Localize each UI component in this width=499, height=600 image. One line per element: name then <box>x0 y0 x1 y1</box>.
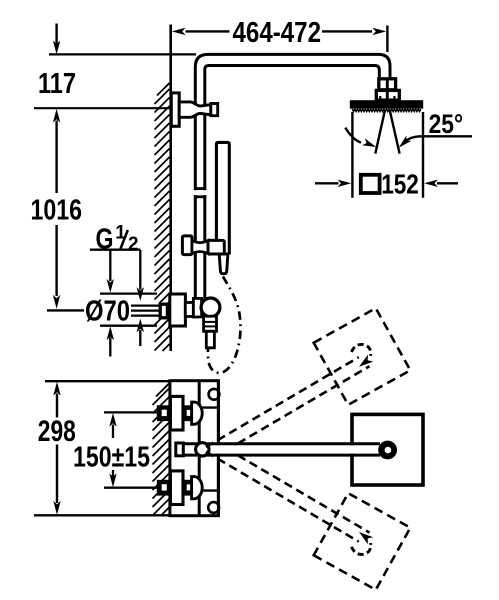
svg-text:298: 298 <box>38 415 76 448</box>
upper handle handle, plan <box>192 402 203 424</box>
extension line y=108 for dim 117 / 1016 <box>34 107 170 109</box>
dim 117 upper arrowhead <box>53 41 60 55</box>
left tilt arrow tail <box>345 128 361 143</box>
dim 150 bottom extension line <box>104 487 157 489</box>
holder right block <box>208 240 224 254</box>
G1/2 underline leader <box>90 249 140 251</box>
plate screw hole upper <box>209 389 220 400</box>
upper handle stem notch <box>187 410 191 416</box>
dim 298 lower arrowhead <box>53 501 60 515</box>
dim 464-472 line right segment <box>322 30 372 32</box>
svg-text:464-472: 464-472 <box>233 17 322 49</box>
plate screw hole lower <box>208 502 219 513</box>
inlet pipe bottom edge <box>131 314 161 316</box>
dim 298 top extension line <box>45 380 170 382</box>
right tilt arrowhead <box>399 136 412 148</box>
dashed arm lower, bottom edge <box>206 452 359 542</box>
lower handle escutcheon, plan <box>170 471 183 505</box>
dim70 top extension line <box>100 292 157 294</box>
square symbol <box>361 175 380 193</box>
arm wall joint block <box>176 443 184 456</box>
dim70 lower arrowhead <box>107 326 114 340</box>
hand shower inlet cone <box>219 254 228 274</box>
extension line y=54 for dim 117 <box>49 53 196 55</box>
swivel joint circle <box>196 443 209 456</box>
valve neck piece <box>185 303 193 317</box>
arm end pivot ring <box>378 441 397 460</box>
svg-text:152: 152 <box>381 168 419 199</box>
dim 464-472 left arrowhead <box>172 28 186 35</box>
dim 152 right segment <box>437 182 458 184</box>
head square, swivelled up (dashed) <box>314 308 411 405</box>
head square, swivelled down (dashed) <box>314 493 411 590</box>
swivel arrow arc lower <box>352 543 371 554</box>
leader line to diameter label <box>47 309 84 311</box>
svg-text:2: 2 <box>128 234 139 255</box>
svg-text:Ø70: Ø70 <box>85 296 130 328</box>
dim 1016 stem lower part <box>55 225 57 296</box>
valve body, side view <box>170 294 186 326</box>
wall hatching, side view <box>155 83 170 351</box>
dim 298 stem lower <box>56 445 58 504</box>
arm bottom edge <box>183 454 380 457</box>
svg-text:25°: 25° <box>429 109 464 139</box>
upper handle stem block <box>183 405 192 421</box>
lower handle connector notch <box>162 484 167 490</box>
dim 152 left arrowhead <box>338 180 352 187</box>
dim 150 stem lower <box>112 470 114 477</box>
dim70 upper stem <box>109 251 111 282</box>
inlet union nut <box>160 304 167 318</box>
fraction slash <box>120 230 128 251</box>
dim 464-472 line left segment <box>186 30 230 32</box>
dim 298 bottom extension line <box>34 514 220 516</box>
valve collar piece <box>193 298 201 317</box>
dashed arm lower, top edge <box>238 455 370 532</box>
svg-text:150±15: 150±15 <box>73 442 150 474</box>
diverter knob circle <box>201 298 220 317</box>
upper handle escutcheon, plan <box>170 396 183 430</box>
dim 117 upper arrow stem <box>55 24 57 45</box>
inlet pipe centre line <box>131 309 161 311</box>
plate right edge (redraw) <box>217 381 220 516</box>
head swivel nut lower <box>376 90 399 100</box>
dim 152 right arrowhead <box>424 180 438 187</box>
plate divider upper <box>199 406 217 408</box>
lower handle stem block <box>183 480 192 496</box>
dim 1016 stem upper part <box>55 121 57 194</box>
dim 1016 lower arrowhead <box>53 295 60 309</box>
tilt V left line <box>375 110 385 154</box>
dim 150 stem upper <box>112 425 114 439</box>
bracket arm <box>179 102 211 117</box>
dim 298 upper arrowhead <box>53 382 60 396</box>
dim 298 stem upper <box>56 394 58 418</box>
plate inner vertical line <box>198 381 201 516</box>
lower handle stem notch <box>187 484 191 490</box>
upper handle connector notch <box>162 410 167 416</box>
bracket end cap <box>211 104 218 116</box>
tilt V right line <box>390 110 400 154</box>
pipe outer edge (riser + arm + drop) <box>195 54 390 299</box>
swivel arrowhead lower <box>359 532 373 544</box>
head square, straight position <box>352 414 423 485</box>
dim 152 left segment <box>315 182 339 184</box>
upper handle wall connector <box>157 405 171 421</box>
riser joint lower cap <box>194 195 206 198</box>
hand shower handle <box>216 142 229 254</box>
svg-text:117: 117 <box>38 68 76 100</box>
swivel arrowhead upper <box>359 355 373 367</box>
lower handle handle, plan <box>192 477 203 499</box>
G1/2 lower arrowhead <box>137 319 144 333</box>
svg-text:1016: 1016 <box>31 195 83 227</box>
holder left block <box>182 236 192 255</box>
wall face line, side view <box>169 25 172 352</box>
lower handle wall connector <box>157 480 171 496</box>
G1/2 upper arrowhead (points at inlet) <box>137 287 144 301</box>
dim 150 top extension line <box>104 411 157 413</box>
right tilt arrow tail / 25deg leader <box>404 136 472 142</box>
dim70 upper arrowhead <box>107 279 114 293</box>
bracket wall flange <box>171 93 179 126</box>
dim 1016 upper arrowhead <box>53 109 60 123</box>
swivel arrow arc upper <box>352 344 371 355</box>
left tilt arrowhead <box>362 138 376 147</box>
shower head plate <box>350 100 423 108</box>
dim70 lower stem <box>109 338 111 357</box>
G1/2 right stem <box>139 250 141 290</box>
G1/2 lower stem <box>139 330 141 346</box>
dim 152 right extension line <box>422 112 424 198</box>
dim 464-472 right extension line <box>386 26 388 53</box>
inlet pipe top edge <box>131 304 161 306</box>
dashed arm upper, top edge <box>206 357 359 447</box>
shower hose <box>208 277 241 373</box>
hose union nut <box>204 316 217 331</box>
dim70 bottom extension line <box>100 325 157 327</box>
riser joint upper cap <box>194 187 206 190</box>
dashed arm upper, bottom edge <box>238 366 370 443</box>
nut ridge 2 <box>205 325 216 327</box>
dim 464-472 right arrowhead <box>372 28 386 35</box>
spray nozzle serration <box>352 109 421 112</box>
pivot ring hole <box>385 447 392 454</box>
riser joint gap <box>193 190 207 195</box>
wall hatching, plan view <box>153 383 170 516</box>
plate divider lower <box>199 489 217 491</box>
arm top edge <box>183 442 380 445</box>
dim 150 lower arrowhead <box>109 473 116 487</box>
hose outlet stub <box>206 331 214 348</box>
nut ridge 1 <box>205 321 216 323</box>
mounting plate outline, plan <box>170 381 219 516</box>
dim 152 left extension line <box>351 112 353 198</box>
arm white fill <box>183 445 381 453</box>
pipe inner edge <box>205 66 379 300</box>
dim 150 upper arrowhead <box>109 413 116 427</box>
holder waist <box>192 240 208 253</box>
head swivel nut upper <box>379 79 396 90</box>
inlet white mask <box>131 303 168 319</box>
